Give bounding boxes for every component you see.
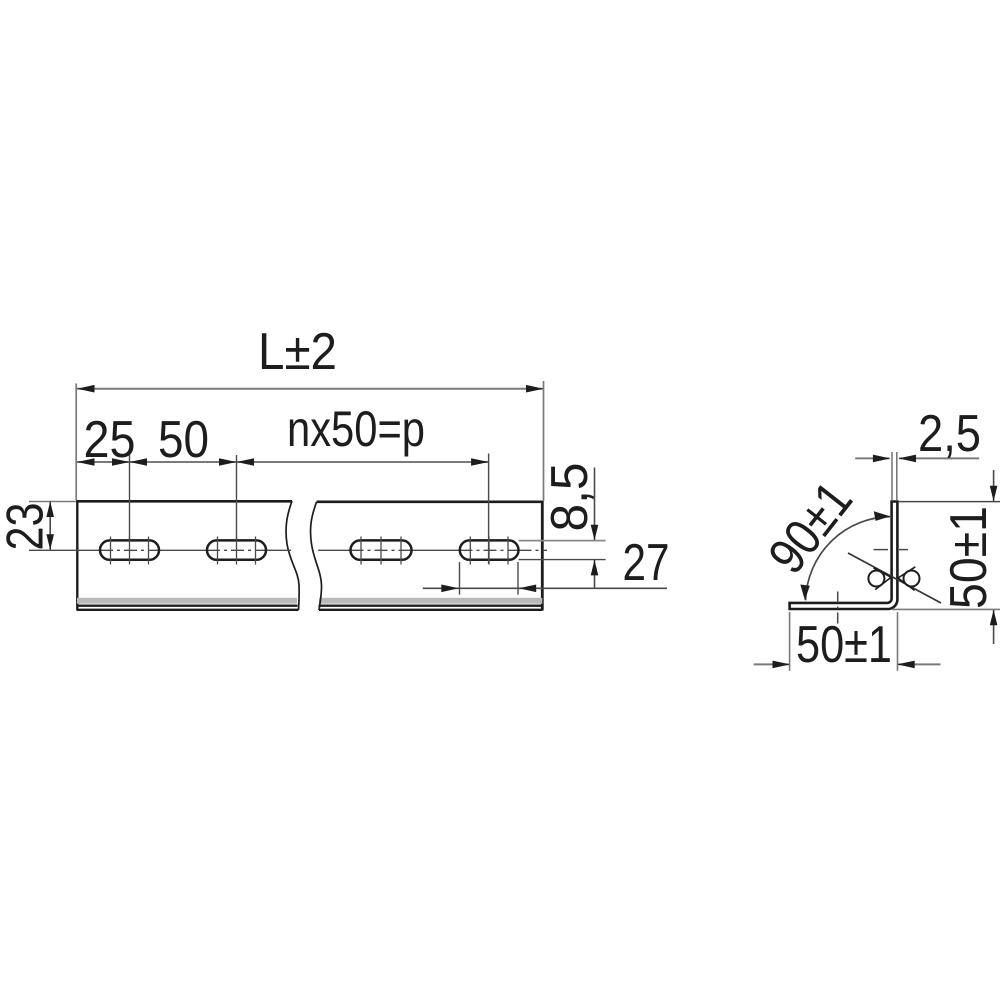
dim 2,5 extension lines: [891, 452, 893, 500]
dim 23 arrow down: [46, 534, 54, 550]
dim L±2 line: [77, 388, 544, 390]
section centerline horizontal (slot level): [874, 549, 889, 551]
bottom edge line 2 piece 1: [77, 609, 299, 611]
strip left edge: [76, 500, 78, 611]
dim 23 extension top: [29, 501, 76, 503]
break S-curve right: [311, 502, 322, 610]
dim 2,5 arrow left: [873, 455, 891, 463]
dim 27 extension left (slot4 left end): [459, 562, 461, 595]
svg-text:L±2: L±2: [258, 323, 337, 381]
break S-curve left: [286, 501, 299, 610]
strip piece 2 top edge: [317, 500, 543, 503]
bottom 50±1 extension right: [897, 612, 899, 671]
dim 2,5 line left tail: [855, 457, 889, 459]
coating symbol right circle: [904, 571, 920, 587]
svg-text:23: 23: [0, 503, 55, 551]
svg-text:8,5: 8,5: [541, 463, 599, 532]
right 50±1 extension bottom (leg bottom): [892, 608, 1000, 610]
svg-text:nx50=p: nx50=p: [287, 401, 425, 457]
dim 90±1 top arrow: [874, 511, 891, 521]
dim L±2 arrow left: [77, 385, 95, 393]
dim L±2 extension line left: [75, 384, 77, 501]
coating symbol left tangents: [873, 568, 891, 578]
slot 4 tick marks: [470, 537, 508, 565]
slot 3: [351, 540, 412, 559]
dim L±2 arrow right: [526, 385, 544, 393]
dim 2,5 line right tail: [899, 457, 979, 459]
bottom 50±1 dim left tail with right arrow: [754, 663, 789, 665]
dim 50/nx50 shared arrows at slot2 center: [219, 458, 237, 466]
svg-text:25: 25: [84, 411, 136, 469]
strip right edge: [541, 501, 544, 611]
slot 2: [207, 540, 266, 559]
strip piece 1 top edge: [77, 500, 292, 503]
dim 8,5 line lower tail with up arrow: [594, 560, 596, 588]
bottom edge line 1 piece 2: [319, 605, 543, 607]
dim 25/50 line: [77, 461, 237, 463]
dim 25 arrow left: [77, 458, 95, 466]
svg-text:2,5: 2,5: [918, 405, 981, 463]
dim 27 arrow pointing right: [441, 585, 459, 593]
slot 4: [460, 540, 519, 559]
dim 8,5 extension top (slot4 top): [519, 540, 606, 542]
bottom edge line 1 piece 1: [77, 605, 298, 607]
coating symbol left circle: [868, 571, 884, 587]
angle profile outline: [790, 502, 898, 610]
dim 90±1 arc: [806, 517, 892, 601]
dim nx50=p line: [237, 461, 489, 463]
right 50±1 dim upper tail with down arrow: [993, 470, 995, 501]
svg-text:50±1: 50±1: [940, 506, 998, 609]
dim 8,5 line upper tail with down arrow: [594, 468, 596, 541]
section centerline vertical (slot position in bottom leg): [837, 592, 839, 625]
svg-text:50±1: 50±1: [796, 616, 892, 674]
right 50±1 dim lower tail with up arrow: [993, 610, 995, 644]
slot 1 tick marks: [111, 537, 149, 565]
bottom 50±1 extension left: [789, 612, 791, 671]
dim 8,5 extension bottom (slot4 bottom): [519, 559, 606, 561]
dim 27 line: [423, 587, 667, 589]
bottom 50±1 dim right tail with left arrow: [898, 663, 941, 665]
coating symbol diagonal: [848, 553, 941, 603]
extension slot4 center: [488, 454, 490, 565]
centerline of slots: [29, 549, 547, 551]
dim nx50 arrow right: [471, 458, 489, 466]
bend gray band piece 2: [319, 598, 542, 604]
dim 27 arrow pointing left: [519, 585, 537, 593]
slot 3 tick marks: [361, 537, 401, 565]
dim 23 line: [49, 502, 51, 550]
svg-text:50: 50: [158, 411, 209, 469]
extension slot1 center: [129, 455, 131, 539]
slot 2 tick marks: [218, 537, 256, 565]
svg-text:27: 27: [623, 534, 670, 592]
dim 23 arrow up: [46, 502, 54, 518]
dim 27 extension right (slot4 right end): [517, 562, 519, 595]
bend gray band piece 1: [77, 598, 297, 604]
dim 90±1 bottom arrow: [800, 585, 810, 601]
slot 1: [100, 540, 159, 559]
coating symbol right tangents: [898, 578, 915, 590]
bottom edge line 2 piece 2: [319, 609, 542, 611]
dim 2,5 arrow right: [899, 455, 917, 463]
dim L±2 extension line right: [543, 381, 545, 501]
right 50±1 extension top (leg top): [898, 501, 1000, 503]
dim 25/50 shared arrows at slot1 center: [112, 458, 130, 466]
extension slot2 center: [236, 455, 238, 539]
